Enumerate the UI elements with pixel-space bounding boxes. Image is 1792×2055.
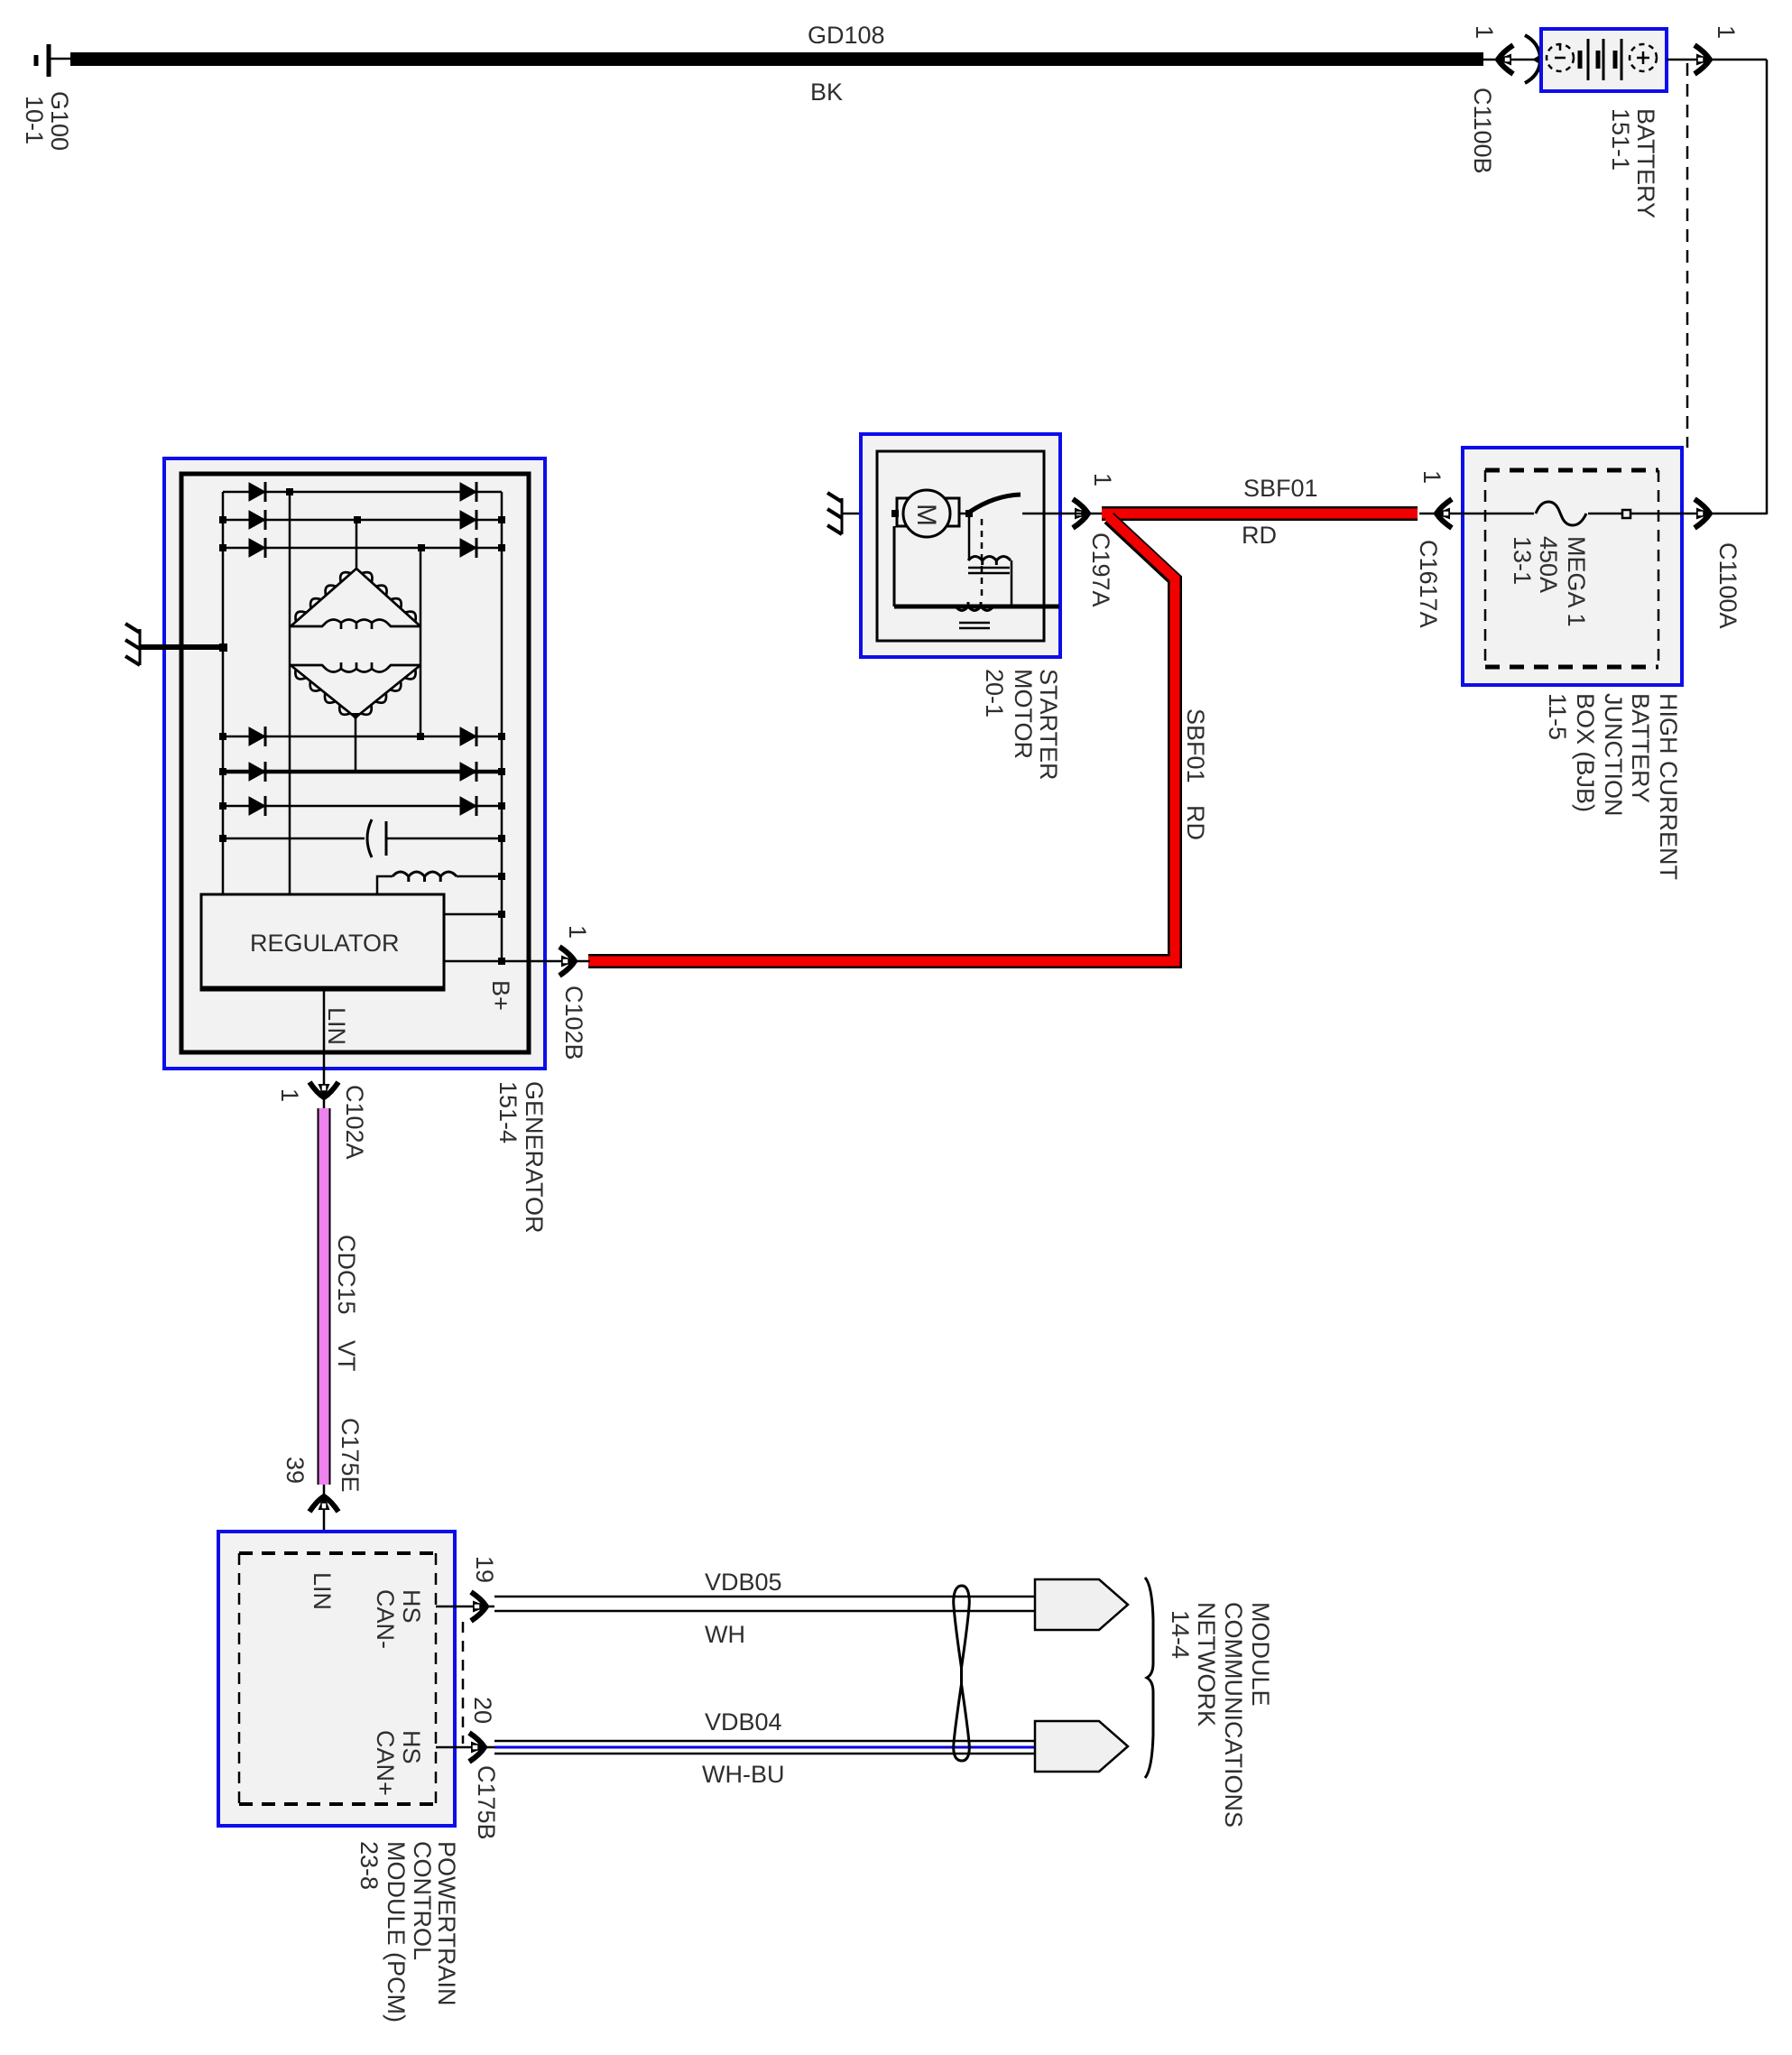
svg-text:MODULE (PCM): MODULE (PCM): [383, 1841, 410, 2023]
PCM inner dashed boundary: [239, 1553, 436, 1804]
svg-text:1: 1: [564, 925, 591, 939]
junction switch pivot: [965, 510, 973, 517]
label HS CAN+: [372, 1730, 425, 1796]
svg-text:STARTER: STARTER: [1035, 669, 1062, 781]
svg-text:VDB04: VDB04: [705, 1708, 782, 1736]
svg-text:BATTERY: BATTERY: [1632, 108, 1659, 218]
svg-text:CONTROL: CONTROL: [409, 1841, 436, 1960]
wire HS CAN- pin 19 stub: [436, 1606, 494, 1608]
fuse MEGA 1 450A element: [1536, 502, 1586, 525]
svg-text:G100: G100: [46, 91, 73, 151]
svg-text:HS: HS: [398, 1730, 425, 1764]
svg-text:COMMUNICATIONS: COMMUNICATIONS: [1220, 1602, 1247, 1828]
svg-text:GD108: GD108: [808, 22, 885, 49]
svg-text:1: 1: [1471, 25, 1498, 39]
twisted pair twist symbol: [954, 1586, 970, 1761]
svg-text:VT: VT: [333, 1340, 360, 1372]
svg-text:C197A: C197A: [1087, 532, 1114, 607]
wire GD108 BK (thick black ground cable): [70, 52, 1483, 66]
wire SBF01 RD bend down to generator B+: [588, 516, 1175, 961]
wire through BJB: [1419, 513, 1534, 515]
svg-text:C175E: C175E: [337, 1418, 364, 1493]
rectifier row 5 (heavy): [223, 770, 502, 774]
junction dots on buses: [219, 488, 505, 965]
label HS CAN-: [372, 1589, 425, 1649]
svg-text:14-4: 14-4: [1167, 1610, 1194, 1659]
wire VDB05 WH twisted pair: [494, 1597, 1035, 1611]
generator right bus: [501, 492, 503, 961]
svg-text:20: 20: [469, 1697, 496, 1724]
stator delta winding (top): [291, 569, 420, 629]
battery positive terminal (+): [1630, 44, 1657, 71]
wire pivot down to solenoid coil: [968, 515, 971, 560]
rectifier row 1: [223, 491, 502, 494]
generator inner-right vertical: [420, 548, 422, 736]
high current battery junction box (BJB): [1463, 448, 1682, 685]
fuse terminal circle: [1622, 510, 1630, 518]
starter motor box: [861, 434, 1060, 657]
generator box: [164, 458, 545, 1069]
svg-text:JUNCTION: JUNCTION: [1600, 693, 1627, 817]
svg-text:REGULATOR: REGULATOR: [250, 930, 400, 957]
wire motor frame to bottom bus: [893, 526, 896, 606]
dashed connector C175B boundary: [462, 1622, 465, 1744]
svg-text:C1617A: C1617A: [1415, 540, 1442, 628]
generator inner case: [181, 474, 529, 1052]
wire switch contact to box edge: [1022, 513, 1060, 515]
connector pin 19 male arrow: [471, 1592, 487, 1621]
wire row2 to delta apex: [356, 520, 358, 570]
label STARTER MOTOR 20-1: [981, 669, 1062, 781]
network brace: [1145, 1578, 1153, 1778]
svg-text:SBF01: SBF01: [1182, 708, 1209, 783]
wire LIN inside generator: [323, 990, 326, 1110]
capacitor curved plate: [367, 819, 372, 857]
svg-text:13-1: 13-1: [1509, 536, 1536, 585]
diodes right column: [460, 482, 476, 816]
svg-text:SBF01: SBF01: [1243, 475, 1318, 502]
svg-text:NETWORK: NETWORK: [1193, 1602, 1220, 1726]
off-page connector VDB04 pentagon: [1035, 1721, 1128, 1772]
svg-text:BATTERY: BATTERY: [1627, 693, 1654, 803]
svg-text:HIGH CURRENT: HIGH CURRENT: [1655, 693, 1682, 880]
wire ground to starter motor: [842, 513, 897, 515]
connector C102B male arrow: [559, 947, 576, 976]
label G100 10-1: [21, 91, 73, 151]
generator second vertical bus: [289, 492, 291, 894]
label MODULE COMMUNICATIONS NETWORK 14-4: [1167, 1602, 1274, 1828]
svg-text:HS: HS: [398, 1589, 425, 1624]
wire wye apex to row5: [355, 717, 357, 772]
svg-text:RD: RD: [1242, 522, 1277, 549]
off-page connector VDB05 pentagon: [1035, 1579, 1128, 1630]
regulator box: [201, 894, 444, 990]
connector C197A male arrow: [1073, 499, 1089, 528]
inductor coil: [393, 872, 457, 882]
dashed solenoid linkage: [981, 519, 984, 596]
svg-text:WH-BU: WH-BU: [702, 1761, 784, 1788]
battery negative terminal (-): [1547, 44, 1574, 71]
wire battery negative lead: [1483, 59, 1541, 61]
svg-text:M: M: [911, 504, 941, 526]
capacitor row wire: [223, 838, 365, 840]
battery cell plates: [1580, 39, 1621, 80]
label POWERTRAIN CONTROL MODULE (PCM) 23-8: [356, 1841, 460, 2023]
wire box edge to C197A: [1060, 513, 1102, 515]
svg-text:POWERTRAIN: POWERTRAIN: [433, 1841, 460, 2006]
svg-text:BOX (BJB): BOX (BJB): [1572, 693, 1599, 812]
solenoid pull-in coil: [968, 557, 1011, 566]
svg-text:VDB05: VDB05: [705, 1569, 782, 1596]
wire SBF01 RD horizontal run: [1102, 506, 1418, 521]
BJB inner dashed boundary: [1485, 470, 1658, 667]
wire CDC15 VT violet: [318, 1108, 331, 1485]
svg-text:B+: B+: [487, 980, 514, 1011]
connector C1100A male arrow at BJB output: [1695, 499, 1711, 528]
svg-text:1: 1: [276, 1088, 303, 1102]
label BATTERY 151-1: [1607, 108, 1659, 218]
svg-text:20-1: 20-1: [981, 669, 1008, 717]
svg-text:GENERATOR: GENERATOR: [521, 1081, 548, 1234]
wire VDB04 WH-BU twisted pair: [494, 1741, 1035, 1754]
connector pin 20 male arrow: [469, 1733, 485, 1762]
svg-text:WH: WH: [705, 1621, 745, 1648]
diodes left column: [249, 482, 265, 816]
stator wye winding (lower, inverted): [291, 662, 420, 717]
svg-text:C175B: C175B: [473, 1765, 500, 1840]
wire battery positive lead: [1667, 59, 1767, 61]
starter bottom bus: [894, 605, 1059, 609]
wire HS CAN+ pin 20 stub: [436, 1746, 494, 1749]
svg-text:CAN-: CAN-: [372, 1589, 399, 1649]
solenoid switch blade: [970, 495, 1021, 512]
connector C1100B female arrow: [1497, 45, 1513, 74]
svg-text:CDC15: CDC15: [333, 1235, 360, 1315]
chassis ground at starter motor: [827, 493, 842, 534]
wire dashed battery sense line: [1686, 63, 1689, 448]
label CDC15 VT: [333, 1235, 360, 1372]
battery box: [1541, 29, 1667, 91]
junction ground to stator bus: [219, 643, 227, 652]
svg-text:MOTOR: MOTOR: [1010, 669, 1037, 759]
connector C102A arrow (down): [309, 1082, 338, 1098]
inline connector half-shell at battery: [1525, 35, 1540, 83]
svg-text:C102A: C102A: [341, 1085, 368, 1160]
label GENERATOR 151-4: [494, 1081, 548, 1234]
svg-text:1: 1: [1089, 473, 1116, 486]
svg-text:BK: BK: [810, 79, 843, 106]
svg-text:C1100A: C1100A: [1714, 542, 1741, 629]
wye apex tip: [350, 713, 361, 720]
svg-text:151-4: 151-4: [494, 1081, 522, 1143]
rectifier row 2: [223, 519, 502, 522]
svg-text:LIN: LIN: [323, 1007, 350, 1045]
label MEGA 1 450A 13-1: [1509, 536, 1590, 627]
svg-text:CAN+: CAN+: [372, 1730, 399, 1796]
svg-text:151-1: 151-1: [1607, 108, 1634, 171]
svg-text:10-1: 10-1: [21, 96, 48, 144]
svg-text:1: 1: [1713, 25, 1740, 39]
svg-text:MEGA 1: MEGA 1: [1563, 536, 1590, 627]
wire motor to switch: [959, 513, 973, 515]
svg-text:C1100B: C1100B: [1469, 88, 1496, 174]
motor brush frame: [897, 498, 959, 526]
rectifier row 4: [223, 736, 502, 738]
wire regulator sense stub: [444, 913, 502, 916]
powertrain control module (PCM) box: [218, 1532, 455, 1826]
wire LIN to PCM: [323, 1485, 326, 1553]
wire right vertical battery feed: [1766, 60, 1769, 514]
connector C175E arrow (up): [309, 1495, 338, 1512]
ground G100: [36, 44, 72, 77]
chassis ground at generator: [125, 624, 140, 665]
svg-text:23-8: 23-8: [356, 1841, 383, 1890]
solenoid hold-in coil: [956, 602, 993, 611]
wire ground into generator: [140, 644, 223, 650]
wire inductor leads: [377, 876, 393, 894]
svg-text:19: 19: [471, 1556, 498, 1583]
generator left bus: [222, 492, 225, 894]
rectifier row 3: [223, 547, 502, 550]
connector C1100A male arrow at battery: [1695, 45, 1711, 74]
connector C1617A female arrow: [1436, 499, 1452, 528]
junction at motor terminal: [891, 510, 899, 517]
svg-text:450A: 450A: [1535, 536, 1562, 593]
rectifier row 6: [223, 805, 502, 808]
svg-text:39: 39: [282, 1457, 309, 1484]
label HIGH CURRENT BATTERY JUNCTION BOX (BJB) 11-5: [1544, 693, 1682, 880]
svg-text:11-5: 11-5: [1544, 693, 1571, 740]
wire B+ output: [444, 960, 590, 963]
starter motor inner case: [877, 451, 1044, 641]
motor M circle: [903, 490, 950, 537]
capacitor straight plate: [385, 821, 388, 856]
wire coil to bottom bus: [1011, 560, 1013, 606]
svg-text:1: 1: [1418, 470, 1446, 484]
svg-text:LIN: LIN: [309, 1572, 336, 1610]
svg-text:MODULE: MODULE: [1247, 1602, 1274, 1707]
svg-text:C102B: C102B: [560, 986, 587, 1060]
svg-text:RD: RD: [1182, 805, 1209, 840]
